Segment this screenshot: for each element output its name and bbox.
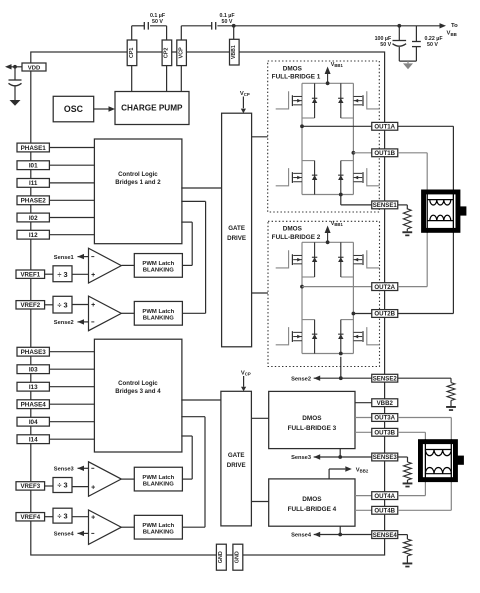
svg-text:CP2: CP2 xyxy=(164,48,170,59)
svg-text:I14: I14 xyxy=(29,437,38,444)
svg-text:VBB2: VBB2 xyxy=(377,400,394,407)
svg-text:GND: GND xyxy=(218,551,224,563)
svg-text:50 V: 50 V xyxy=(427,42,438,48)
svg-text:OUT2A: OUT2A xyxy=(374,284,395,291)
svg-text:Control Logic: Control Logic xyxy=(118,171,158,178)
svg-text:0.1 µF: 0.1 µF xyxy=(150,13,166,19)
svg-text:CP1: CP1 xyxy=(129,48,135,59)
svg-text:Sense4: Sense4 xyxy=(54,532,75,538)
svg-text:I13: I13 xyxy=(29,384,38,391)
svg-text:+: + xyxy=(91,484,95,491)
svg-text:PHASE2: PHASE2 xyxy=(21,198,47,205)
svg-text:DRIVE: DRIVE xyxy=(227,462,246,469)
svg-text:OUT3B: OUT3B xyxy=(374,430,395,437)
svg-text:I02: I02 xyxy=(29,215,38,222)
svg-text:÷ 3: ÷ 3 xyxy=(57,301,67,310)
svg-text:Control Logic: Control Logic xyxy=(118,380,158,387)
svg-text:PHASE3: PHASE3 xyxy=(21,349,47,356)
svg-text:I04: I04 xyxy=(29,419,38,426)
svg-text:PWM Latch: PWM Latch xyxy=(142,475,174,481)
svg-text:I03: I03 xyxy=(29,367,38,374)
svg-text:0.1 µF: 0.1 µF xyxy=(219,13,235,19)
svg-text:BLANKING: BLANKING xyxy=(143,316,175,322)
svg-text:Sense2: Sense2 xyxy=(54,320,74,326)
svg-text:PHASE1: PHASE1 xyxy=(21,145,47,152)
svg-text:VDD: VDD xyxy=(28,65,40,71)
svg-text:DRIVE: DRIVE xyxy=(227,235,246,242)
svg-text:OUT1B: OUT1B xyxy=(374,150,395,157)
svg-text:VCP: VCP xyxy=(241,371,251,377)
svg-text:CHARGE PUMP: CHARGE PUMP xyxy=(121,103,183,112)
svg-text:PWM Latch: PWM Latch xyxy=(142,261,174,267)
svg-text:VBB1: VBB1 xyxy=(331,221,344,227)
svg-text:FULL-BRIDGE 4: FULL-BRIDGE 4 xyxy=(288,506,337,513)
svg-text:+: + xyxy=(91,272,95,279)
svg-text:To: To xyxy=(451,23,458,29)
svg-text:BLANKING: BLANKING xyxy=(143,268,175,274)
svg-text:PWM Latch: PWM Latch xyxy=(142,309,174,315)
svg-text:GATE: GATE xyxy=(228,452,245,459)
svg-text:I12: I12 xyxy=(29,232,38,239)
svg-text:Bridges 3 and 4: Bridges 3 and 4 xyxy=(115,388,161,395)
svg-text:÷ 3: ÷ 3 xyxy=(57,511,67,520)
svg-text:PHASE4: PHASE4 xyxy=(21,402,47,409)
svg-text:GATE: GATE xyxy=(228,225,245,232)
svg-text:OSC: OSC xyxy=(64,104,84,114)
svg-text:+: + xyxy=(91,514,95,521)
svg-text:BLANKING: BLANKING xyxy=(143,481,175,487)
svg-text:VBB2: VBB2 xyxy=(356,467,369,473)
svg-text:Sense3: Sense3 xyxy=(54,467,74,473)
svg-text:VREF4: VREF4 xyxy=(20,514,40,521)
svg-text:DMOS: DMOS xyxy=(302,496,322,503)
svg-text:VREF1: VREF1 xyxy=(20,271,40,278)
svg-text:÷ 3: ÷ 3 xyxy=(57,481,67,490)
svg-text:Sense4: Sense4 xyxy=(291,533,312,539)
svg-text:+: + xyxy=(91,302,95,309)
svg-text:FULL-BRIDGE 2: FULL-BRIDGE 2 xyxy=(272,234,321,241)
svg-text:VCP: VCP xyxy=(240,91,250,97)
svg-text:÷ 3: ÷ 3 xyxy=(57,270,67,279)
svg-text:SENSE3: SENSE3 xyxy=(373,454,398,461)
svg-text:VBB: VBB xyxy=(447,31,457,37)
svg-text:VBB1: VBB1 xyxy=(331,62,344,68)
svg-text:100 µF: 100 µF xyxy=(375,36,392,42)
svg-text:FULL-BRIDGE 1: FULL-BRIDGE 1 xyxy=(272,74,321,81)
svg-text:I01: I01 xyxy=(29,163,38,170)
svg-text:BLANKING: BLANKING xyxy=(143,529,175,535)
svg-text:OUT3A: OUT3A xyxy=(374,415,395,422)
svg-text:OUT4A: OUT4A xyxy=(374,493,395,500)
svg-text:I11: I11 xyxy=(29,180,38,187)
svg-text:VBB1: VBB1 xyxy=(231,45,237,59)
svg-text:SENSE2: SENSE2 xyxy=(373,375,398,382)
svg-text:DMOS: DMOS xyxy=(283,226,303,233)
svg-text:SENSE4: SENSE4 xyxy=(373,532,398,539)
svg-text:VREF3: VREF3 xyxy=(20,483,40,490)
svg-text:DMOS: DMOS xyxy=(283,65,303,72)
svg-text:PWM Latch: PWM Latch xyxy=(142,523,174,529)
svg-text:OUT1A: OUT1A xyxy=(374,124,395,131)
svg-text:50 V: 50 V xyxy=(152,19,163,25)
svg-text:GND: GND xyxy=(235,551,241,563)
svg-text:Bridges 1 and 2: Bridges 1 and 2 xyxy=(115,179,161,186)
svg-text:Sense1: Sense1 xyxy=(54,255,74,261)
svg-text:OUT2B: OUT2B xyxy=(374,311,395,318)
svg-text:SENSE1: SENSE1 xyxy=(373,202,398,209)
svg-text:Sense2: Sense2 xyxy=(291,376,311,382)
svg-text:FULL-BRIDGE 3: FULL-BRIDGE 3 xyxy=(288,425,337,432)
svg-text:OUT4B: OUT4B xyxy=(374,508,395,515)
svg-text:50 V: 50 V xyxy=(380,42,391,48)
svg-text:DMOS: DMOS xyxy=(302,415,322,422)
svg-text:VCP: VCP xyxy=(178,47,184,58)
svg-text:50 V: 50 V xyxy=(222,19,233,25)
svg-text:Sense3: Sense3 xyxy=(291,455,311,461)
svg-text:0.22 µF: 0.22 µF xyxy=(425,36,444,42)
svg-text:VREF2: VREF2 xyxy=(20,302,40,309)
